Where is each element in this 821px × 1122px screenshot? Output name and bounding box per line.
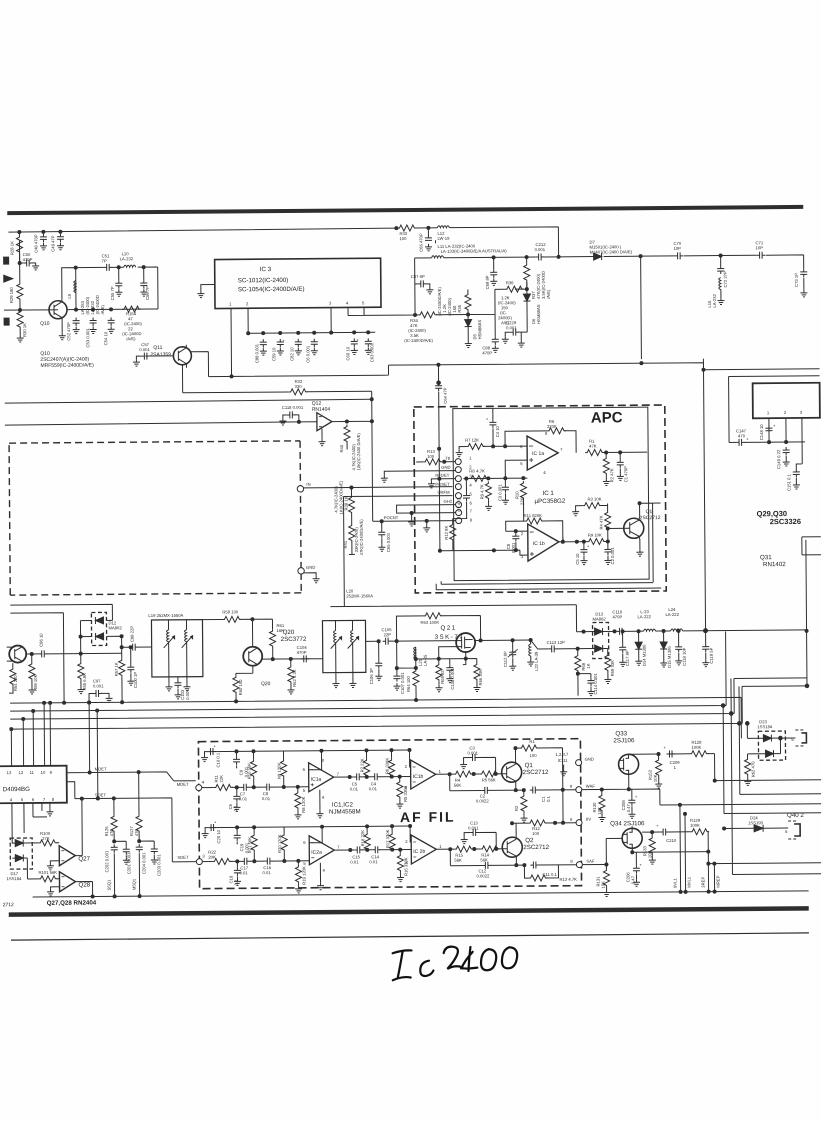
svg-text:R17 330K: R17 330K [385, 829, 390, 848]
resistor R68 [575, 647, 591, 696]
wire right rail x806 [806, 540, 807, 686]
ground GH2 [408, 513, 415, 526]
svg-text:10K(IC-2400 D/A/E): 10K(IC-2400 D/A/E) [356, 433, 361, 471]
wire Q10 base row [4, 309, 49, 311]
svg-text:C117 8P: C117 8P [625, 650, 630, 666]
capacitor C8 [506, 531, 520, 553]
svg-text:C52 470P: C52 470P [66, 322, 71, 341]
svg-text:4: 4 [202, 780, 205, 785]
capacitor C149 [776, 447, 790, 469]
top border thick rule [7, 207, 803, 213]
svg-text:Q27,Q28 RN2404: Q27,Q28 RN2404 [47, 899, 97, 906]
diode D15 [660, 631, 672, 668]
svg-text:C100 1P: C100 1P [133, 672, 138, 689]
svg-text:R62 3.3K: R62 3.3K [292, 669, 297, 687]
svg-text:0.001: 0.001 [467, 750, 478, 755]
capacitor C201 [114, 841, 131, 874]
resistor R18 [360, 826, 370, 851]
resistor R20 [277, 827, 287, 861]
svg-text:470P: 470P [482, 350, 492, 355]
svg-text:220K: 220K [547, 424, 557, 429]
svg-text:7: 7 [560, 447, 563, 452]
resistor R29 [9, 263, 23, 310]
resistor R11 feedback [506, 513, 565, 544]
pin 9 WAF [570, 784, 596, 793]
svg-text:0.0022: 0.0022 [476, 798, 490, 803]
handwritten Ic 2400 [391, 944, 518, 980]
wire Q27 out [75, 799, 82, 856]
box D4094BG [0, 766, 67, 804]
svg-text:Q28: Q28 [79, 882, 91, 889]
svg-text:C64 47P: C64 47P [443, 387, 448, 404]
wire Q10 collector to L9 node [49, 267, 150, 310]
svg-text:0.1: 0.1 [546, 795, 551, 802]
wire D23 feed [747, 723, 763, 738]
svg-text:0.47: 0.47 [626, 803, 631, 812]
capacitor C99 [121, 626, 151, 651]
resistor R64 [406, 668, 419, 702]
svg-text:C88 0.001: C88 0.001 [254, 343, 259, 363]
wire bottom rail [33, 891, 809, 897]
wire Q21 source [465, 653, 467, 659]
svg-text:56K: 56K [454, 783, 462, 788]
svg-text:C10 0.1: C10 0.1 [215, 752, 220, 767]
capacitor C63 [365, 338, 375, 362]
inductor L19a [163, 620, 174, 677]
capacitor C9 [233, 751, 249, 777]
svg-text:3SK-77: 3SK-77 [435, 634, 465, 641]
connector J right lower [785, 821, 800, 839]
resistor R127 [129, 772, 143, 843]
svg-text:R58 100: R58 100 [222, 609, 239, 614]
svg-text:R64 100: R64 100 [406, 675, 411, 692]
svg-text:MREP: MREP [715, 875, 720, 887]
svg-text:6: 6 [303, 840, 306, 845]
inductor L23 [637, 609, 657, 631]
capacitor C112 [503, 640, 518, 670]
wire Q12 input y=421 [5, 422, 317, 425]
transistor Q2 AF [502, 837, 550, 857]
transistor Q10 [40, 300, 67, 327]
wire RFDET internal [463, 477, 527, 480]
svg-text:SC-1054(IC-2400D/A/E): SC-1054(IC-2400D/A/E) [238, 286, 305, 294]
wire R34 row [398, 282, 527, 315]
capacitor C12 [476, 862, 491, 879]
svg-text:C96 10: C96 10 [39, 633, 44, 647]
diode D5 [465, 314, 483, 347]
svg-text:470P: 470P [23, 257, 33, 262]
svg-text:252MX-1560A: 252MX-1560A [346, 593, 373, 598]
svg-text:5: 5 [520, 461, 523, 466]
svg-text:R30 1K: R30 1K [22, 323, 27, 337]
ground Q10 emitter [59, 322, 66, 340]
svg-text:Q21: Q21 [441, 625, 457, 632]
resistor R60 [233, 673, 243, 703]
wire IC1b minus [506, 530, 528, 532]
wire bus4 [10, 686, 807, 729]
svg-text:C49 47P: C49 47P [50, 235, 55, 252]
capacitor C19 [234, 827, 250, 853]
resistor R8 [469, 468, 488, 481]
svg-text:330: 330 [295, 384, 303, 389]
svg-text:R6 330K: R6 330K [385, 758, 390, 775]
capacitor C212 [534, 242, 546, 261]
svg-text:C112 8P: C112 8P [503, 651, 508, 667]
svg-text:C118 0.001: C118 0.001 [282, 405, 304, 410]
svg-text:Q2: Q2 [525, 837, 534, 844]
pin labels APC [383, 456, 453, 521]
svg-text:0.001: 0.001 [535, 247, 546, 252]
resistor R7 [456, 437, 528, 457]
capacitor C106 [369, 641, 383, 684]
svg-text:C73 1P: C73 1P [794, 273, 799, 287]
resistor R16 [397, 850, 409, 882]
svg-text:27K: 27K [42, 836, 50, 841]
svg-text:100K: 100K [690, 823, 700, 828]
capacitor C8b [262, 784, 273, 802]
svg-text:470: 470 [109, 829, 114, 837]
svg-text:2712: 2712 [3, 902, 14, 908]
svg-text:10P: 10P [674, 246, 682, 251]
inductor L20b [347, 620, 358, 672]
svg-text:C107 0.001: C107 0.001 [400, 672, 405, 694]
svg-text:1: 1 [469, 456, 472, 461]
IC3 box [215, 258, 381, 308]
svg-text:C59 10: C59 10 [271, 347, 276, 361]
capacitor C20 [202, 819, 222, 843]
diode D6 [523, 289, 541, 324]
resistor R40 [339, 424, 361, 470]
wire IC2a out [334, 848, 411, 851]
capacitor C118 [279, 405, 304, 425]
svg-text:IC1b: IC1b [413, 774, 424, 780]
node EE left edge [4, 318, 9, 325]
wire Q20 output row [262, 658, 323, 660]
resistor R38 [333, 480, 354, 515]
svg-text:L19 252MX-1550A: L19 252MX-1550A [148, 613, 183, 618]
wire D12 right top [106, 619, 112, 621]
svg-text:7: 7 [337, 845, 340, 850]
svg-text:2SC2712: 2SC2712 [523, 769, 549, 776]
svg-text:C202 0.001: C202 0.001 [104, 850, 109, 872]
capacitor C72 [717, 255, 728, 287]
svg-text:C4 10: C4 10 [495, 425, 500, 437]
svg-text:R35: R35 [457, 304, 462, 312]
transistor Q21 [435, 624, 476, 652]
svg-text:22K: 22K [219, 775, 224, 783]
capacitor C208 [621, 789, 638, 818]
svg-text:R40: R40 [339, 444, 344, 452]
wire Q20 emitter [236, 666, 253, 673]
svg-text:(IC-2400D/A/E): (IC-2400D/A/E) [437, 287, 442, 316]
wire AF row1 top rail [209, 750, 409, 752]
transistor Q34 [622, 828, 642, 848]
svg-text:R13 4.7K: R13 4.7K [559, 877, 577, 882]
ground Q1 emitter [636, 536, 643, 556]
svg-text:R4 47K: R4 47K [599, 515, 604, 529]
svg-text:+: + [656, 823, 659, 828]
resistor R7b [359, 750, 369, 777]
svg-text:0.001: 0.001 [506, 325, 517, 330]
resistor R55 [77, 654, 87, 694]
svg-text:LA-25: LA-25 [423, 654, 428, 666]
svg-text:R36: R36 [506, 280, 514, 285]
svg-text:SDET: SDET [95, 792, 107, 797]
module box outer top right [729, 376, 821, 443]
inductor L10 [120, 251, 136, 267]
svg-text:S5Q1: S5Q1 [106, 879, 111, 890]
svg-text:R7 22K: R7 22K [360, 758, 365, 772]
wire Q1 out rail [653, 502, 661, 504]
svg-text:C2 0.001: C2 0.001 [610, 547, 615, 565]
svg-text:3REP: 3REP [700, 877, 705, 888]
svg-text:C69 8P: C69 8P [485, 275, 490, 289]
svg-text:R66 33K: R66 33K [478, 669, 483, 686]
svg-text:100: 100 [427, 454, 435, 459]
wire D12 lower out [107, 636, 122, 658]
wire POSET to IN [303, 487, 452, 488]
capacitor C4b [369, 773, 381, 791]
capacitor C1 [617, 452, 629, 482]
ground Q12 [318, 429, 325, 446]
capacitor C11 [530, 861, 576, 877]
svg-text:0.001: 0.001 [185, 689, 190, 700]
label IC1 [534, 490, 565, 505]
capacitor C6b [305, 339, 318, 363]
wire 8V rail AF [512, 822, 576, 825]
capacitor C60 [345, 337, 359, 360]
svg-text:/A/E): /A/E) [100, 304, 105, 314]
svg-text:Q11: Q11 [153, 345, 162, 351]
svg-text:C108 0.001: C108 0.001 [450, 667, 455, 689]
APC dashed box [414, 405, 666, 593]
svg-text:R59 10K: R59 10K [33, 674, 38, 691]
wire IC1a plus input [505, 460, 527, 478]
capacitor C54 [103, 317, 115, 345]
inductor L21 [397, 647, 428, 670]
ground IC3 left [197, 285, 215, 298]
capacitor C107 [393, 641, 405, 694]
svg-text:C149 0.22: C149 0.22 [776, 449, 781, 469]
svg-text:C65 0.001: C65 0.001 [386, 532, 391, 552]
resistor R19 [295, 861, 307, 893]
svg-text:0.001: 0.001 [139, 347, 150, 352]
svg-text:22P: 22P [384, 632, 392, 637]
label MDET [95, 766, 189, 788]
svg-text:8: 8 [470, 518, 473, 523]
resistor R3 [572, 496, 608, 515]
svg-text:C151 0.1: C151 0.1 [786, 473, 791, 491]
node 1E left edge [4, 257, 9, 264]
svg-text:2SA1359: 2SA1359 [150, 352, 171, 358]
wire IC2a feedback [309, 827, 322, 843]
svg-text:MDET: MDET [95, 766, 107, 771]
resistor R57 [114, 658, 125, 702]
op-amp Q12 RN1404 [312, 401, 332, 431]
capacitor C203 [139, 841, 161, 876]
svg-text:M5Q1: M5Q1 [131, 878, 136, 890]
resistor R4b [454, 771, 473, 788]
resistor R1 [585, 438, 647, 455]
pin numbers APC [469, 456, 473, 523]
wire D12 left leg [80, 621, 91, 654]
svg-text:4: 4 [346, 300, 349, 305]
resistor R35 [457, 290, 471, 315]
svg-text:8: 8 [545, 431, 548, 436]
capacitor C69 [485, 257, 498, 289]
svg-text:R63 100K: R63 100K [420, 620, 439, 625]
capacitor C14 [369, 846, 381, 864]
svg-text:MDET: MDET [177, 782, 189, 787]
svg-text:SDET: SDET [177, 855, 189, 860]
svg-text:MA862: MA862 [108, 625, 122, 630]
resistor R62b [744, 754, 766, 786]
capacitor C210 [656, 823, 677, 843]
svg-text:M1407(IC-2400 D/A/E): M1407(IC-2400 D/A/E) [590, 249, 633, 254]
capacitor C13 [461, 820, 498, 850]
capacitor C59 [271, 338, 285, 361]
svg-text:R8 120K: R8 120K [301, 796, 306, 813]
resistor R41 [343, 514, 364, 555]
svg-text:HSM88AS: HSM88AS [477, 320, 482, 340]
svg-text:4: 4 [469, 483, 472, 488]
capacitor C113 [531, 640, 578, 653]
resistor R131 [595, 864, 610, 896]
capacitor C57 [133, 342, 174, 366]
svg-text:R57 1K: R57 1K [114, 662, 119, 676]
svg-text:+: + [639, 862, 642, 867]
svg-text:C119 5P: C119 5P [709, 647, 714, 663]
resistor R14 [480, 846, 499, 863]
capacitor C97 [87, 678, 112, 704]
wire Q34 drain [632, 826, 690, 832]
svg-text:3: 3 [800, 410, 803, 415]
svg-text:D4094BG: D4094BG [3, 786, 30, 793]
resistor R65 [435, 659, 445, 692]
svg-text:µPC358G2: µPC358G2 [535, 498, 566, 505]
label Q29 Q30 [757, 509, 801, 526]
capacitor C49 [50, 234, 64, 252]
wire IC1b out [436, 773, 502, 776]
resistor R152 [648, 754, 663, 788]
svg-text:IN: IN [306, 482, 310, 487]
transistor Q11 [150, 345, 191, 368]
resistor R63 loop [396, 612, 482, 642]
ground L20a [332, 673, 339, 688]
wire Q33 source [581, 773, 821, 806]
capacitor C53 [85, 317, 97, 347]
svg-text:10: 10 [41, 770, 46, 775]
svg-text:+: + [356, 337, 359, 342]
resistor R11 [214, 774, 233, 790]
capacitor C70 [673, 241, 683, 260]
svg-text:+: + [746, 436, 749, 441]
capacitor C151 [786, 469, 800, 491]
inductor L9 [67, 281, 76, 299]
svg-text:0.01: 0.01 [369, 859, 378, 864]
transistor Q20 [243, 629, 307, 687]
capacitor C2b [476, 787, 491, 804]
wire SDET run [66, 710, 196, 863]
svg-text:47K: 47K [589, 444, 597, 449]
svg-text:WAF: WAF [586, 784, 596, 789]
svg-text:R11 820K: R11 820K [524, 513, 543, 518]
svg-text:2: 2 [246, 301, 249, 306]
inductor L20a [330, 621, 341, 673]
svg-text:0.47: 0.47 [630, 875, 635, 884]
label L20 module [346, 588, 373, 598]
svg-text:/A/E): /A/E) [126, 336, 136, 341]
svg-text:C72 27P: C72 27P [723, 271, 728, 288]
resistor R12b [528, 820, 547, 836]
svg-text:IC 2b: IC 2b [413, 849, 425, 855]
wire long rail y=399 [5, 399, 372, 403]
wire Q11 collector run [190, 348, 703, 377]
wire bus1 [10, 697, 741, 744]
wire GND pin2 [381, 471, 456, 483]
svg-text:C20 10: C20 10 [216, 829, 221, 843]
svg-text:C54 10: C54 10 [103, 331, 108, 345]
wire IC1a feedback [308, 751, 321, 770]
ground L20b [349, 672, 356, 687]
resistor R21 [247, 827, 257, 861]
svg-text:10K: 10K [647, 850, 652, 858]
op-amp Q27 [59, 846, 90, 866]
svg-text:LA-222: LA-222 [637, 614, 651, 619]
resistor R5c [480, 771, 499, 783]
svg-text:0.1: 0.1 [233, 805, 238, 812]
diode D12 pair [91, 612, 122, 645]
op-amp IC1b [521, 524, 565, 561]
capacitor C100 [127, 646, 138, 689]
svg-text:IC 1b: IC 1b [533, 541, 545, 547]
diode D24 [723, 815, 789, 832]
svg-text:C56 7P: C56 7P [145, 286, 150, 300]
capacitor C119 [702, 631, 714, 667]
svg-text:R7 12K: R7 12K [465, 437, 479, 442]
wire feed D12 upper [10, 604, 112, 621]
svg-text:R3 10K: R3 10K [587, 496, 601, 501]
ground Q21 source [463, 659, 466, 665]
wire POCNT [382, 520, 456, 523]
svg-text:+: + [214, 820, 217, 825]
capacitor C105 [366, 627, 397, 645]
svg-text:2SC3772: 2SC3772 [281, 636, 307, 643]
op-amp IC2b AF [405, 835, 442, 865]
capacitor C4 [486, 408, 500, 446]
svg-text:3: 3 [329, 301, 332, 306]
svg-text:7P: 7P [102, 258, 107, 263]
label Q31 [760, 554, 786, 568]
svg-text:12: 12 [19, 770, 24, 775]
svg-text:2: 2 [784, 410, 787, 415]
inductor L12 [437, 226, 450, 241]
svg-text:C5 10: C5 10 [575, 553, 580, 565]
svg-text:R19 120K: R19 120K [301, 866, 306, 885]
svg-text:C60 10: C60 10 [345, 346, 350, 360]
svg-text:470P: 470P [612, 614, 622, 619]
capacitor C147 [736, 428, 749, 446]
svg-text:R20 120K: R20 120K [277, 834, 282, 853]
resistor R37 [524, 257, 551, 299]
wire Q2 emitter row [450, 849, 532, 866]
svg-text:0.01: 0.01 [262, 796, 271, 801]
capacitor C17 [239, 858, 250, 876]
resistor R30 [17, 310, 28, 342]
op-amp IC1a [520, 431, 563, 475]
wire C147 rail [729, 441, 805, 444]
wire bus3 [10, 678, 807, 719]
